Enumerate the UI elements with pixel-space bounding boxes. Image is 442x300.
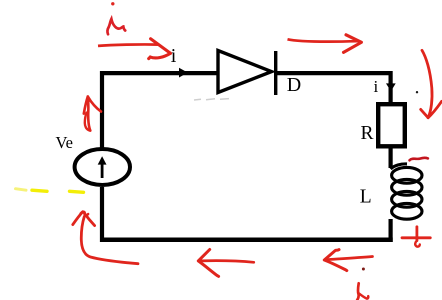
svg-text:R: R — [361, 123, 374, 144]
svg-text:i: i — [171, 45, 177, 67]
svg-text:D: D — [287, 74, 301, 96]
wire left vertical upper — [100, 71, 104, 148]
yellow highlighter dash 3 — [70, 191, 84, 192]
gray smudge under diode — [194, 99, 229, 100]
yellow highlighter dash 2 — [32, 190, 47, 191]
annotation arrow left (bottom right) — [324, 250, 372, 271]
svg-text:Ve: Ve — [56, 133, 73, 152]
yellow highlighter dash 1 — [16, 189, 27, 191]
current arrowhead on top wire — [179, 68, 188, 78]
annotation arrow left (bottom center) — [198, 250, 254, 277]
current arrowhead on right wire — [386, 83, 396, 91]
black speck near right squiggle — [416, 91, 418, 93]
annotation squiggle down-arrow right side — [421, 50, 442, 117]
annotation squiggle lambda top-left — [107, 19, 125, 34]
annotation plus sign — [402, 227, 430, 247]
wire right vertical middle — [389, 146, 393, 168]
annotation up-squiggle near left wire — [84, 97, 101, 131]
inductor L — [391, 164, 422, 219]
annotation arrow right (top-left) — [98, 39, 170, 59]
annotation hook squiggle (bottom right) — [357, 283, 368, 300]
svg-text:i: i — [374, 77, 379, 96]
resistor R — [378, 104, 405, 146]
svg-text:L: L — [360, 186, 372, 207]
source Ve (current source symbol) — [75, 149, 130, 185]
wire top-left segment — [100, 71, 218, 75]
wire left vertical lower — [100, 187, 104, 242]
diode D — [218, 51, 276, 96]
annotation arrow right (above diode) — [288, 35, 362, 53]
wire right vertical lower — [389, 219, 393, 242]
annotation dark dot (bottom right) — [362, 268, 365, 271]
annotation tilde above inductor — [410, 158, 428, 161]
annotation curved up-arrow (bottom left) — [73, 212, 138, 264]
wire top-right segment — [277, 71, 393, 75]
wire bottom segment — [100, 238, 393, 243]
wire right vertical upper — [389, 71, 393, 103]
annotation red dot top — [111, 2, 114, 5]
